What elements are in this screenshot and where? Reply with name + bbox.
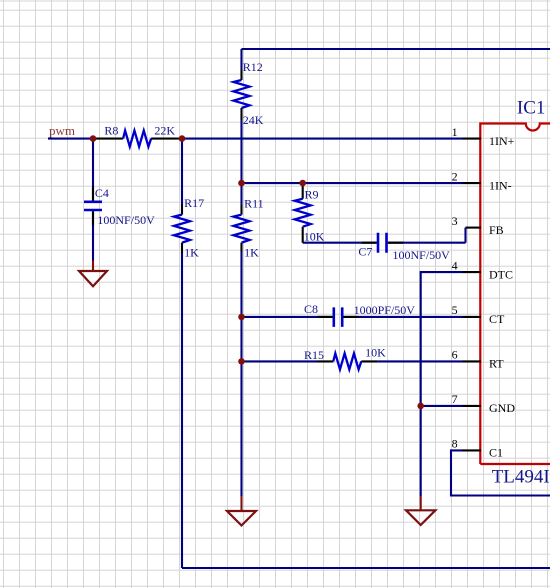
wire DTC net xyxy=(421,272,462,496)
wire pin2 net xyxy=(242,182,463,184)
svg-text:100NF/50V: 100NF/50V xyxy=(393,248,451,262)
pin 3 xyxy=(452,214,504,237)
ground under DTC branch xyxy=(406,496,435,525)
svg-text:7: 7 xyxy=(452,392,458,406)
svg-text:2: 2 xyxy=(452,169,458,183)
junction node R9 top xyxy=(299,180,306,187)
svg-text:C8: C8 xyxy=(304,302,318,316)
capacitor C4 xyxy=(84,186,155,227)
wire pwm lead xyxy=(48,138,92,140)
pin 6 xyxy=(452,348,505,371)
wire top net to right edge xyxy=(242,49,550,70)
wire C4 branch xyxy=(92,139,94,261)
resistor R15 xyxy=(304,345,386,369)
capacitor C7 xyxy=(358,233,450,262)
resistor R11 xyxy=(234,197,264,260)
pin 4 xyxy=(452,258,513,281)
wire R11 bottom to ground xyxy=(240,252,242,496)
ground under R11 branch xyxy=(227,496,256,526)
resistor R9 xyxy=(295,183,325,243)
junction node CT branch xyxy=(238,314,245,321)
svg-text:R15: R15 xyxy=(304,348,324,362)
junction node GND branch xyxy=(417,403,424,410)
svg-text:RT: RT xyxy=(489,357,504,371)
svg-text:10K: 10K xyxy=(365,345,386,359)
pin 7 xyxy=(452,392,516,415)
svg-text:C1: C1 xyxy=(489,446,503,460)
svg-text:C7: C7 xyxy=(358,245,372,259)
svg-text:24K: 24K xyxy=(243,113,264,127)
wire R17 bottom long xyxy=(181,253,183,568)
svg-text:6: 6 xyxy=(452,348,458,362)
svg-text:FB: FB xyxy=(489,223,504,237)
junction node pwm/C4 xyxy=(90,135,97,142)
wire CT net xyxy=(242,316,463,318)
wire GND net xyxy=(421,405,462,407)
svg-text:1K: 1K xyxy=(244,246,259,260)
svg-text:8: 8 xyxy=(452,437,458,451)
svg-text:R9: R9 xyxy=(305,188,319,202)
svg-text:100NF/50V: 100NF/50V xyxy=(97,213,155,227)
wire R12 bottom to junction xyxy=(240,120,242,183)
svg-text:5: 5 xyxy=(452,303,458,317)
svg-text:TL494ID: TL494ID xyxy=(492,467,550,488)
svg-text:pwm: pwm xyxy=(49,123,75,138)
svg-text:C4: C4 xyxy=(95,186,109,200)
svg-text:IC1: IC1 xyxy=(517,98,546,119)
svg-text:1IN-: 1IN- xyxy=(489,178,512,192)
svg-text:10K: 10K xyxy=(304,230,325,244)
resistor R8 xyxy=(93,123,182,146)
wire R11 top xyxy=(240,183,242,205)
svg-text:R11: R11 xyxy=(244,197,264,211)
svg-text:4: 4 xyxy=(452,258,458,272)
wire pin8 net xyxy=(451,450,550,495)
wire R17 branch top xyxy=(181,139,183,204)
junction node R8/R17 xyxy=(179,135,186,142)
svg-text:GND: GND xyxy=(489,401,515,415)
wire main net from R8 to pin1 xyxy=(182,138,462,140)
wire FB net xyxy=(303,228,466,243)
svg-text:22K: 22K xyxy=(154,123,175,137)
svg-text:1000PF/50V: 1000PF/50V xyxy=(354,303,416,317)
pin 8 xyxy=(452,437,503,460)
svg-text:R17: R17 xyxy=(184,196,204,210)
pin 2 xyxy=(452,169,512,192)
wire bottom rail xyxy=(182,567,550,569)
svg-text:1: 1 xyxy=(452,125,458,139)
wire RT net xyxy=(242,360,463,362)
junction node RT branch xyxy=(238,358,245,365)
svg-text:R12: R12 xyxy=(243,60,263,74)
svg-text:1IN+: 1IN+ xyxy=(489,134,515,148)
pin 1 xyxy=(452,125,515,148)
svg-text:3: 3 xyxy=(452,214,458,228)
op-amp U1 IC1 TL494ID box xyxy=(480,98,550,488)
resistor R12 xyxy=(234,60,264,127)
capacitor C8 xyxy=(304,302,415,327)
junction node R12/R11 pin2 xyxy=(238,180,245,187)
resistor R17 xyxy=(174,196,204,260)
svg-text:R8: R8 xyxy=(104,123,118,137)
svg-text:CT: CT xyxy=(489,312,505,326)
pin 5 xyxy=(452,303,505,326)
svg-text:DTC: DTC xyxy=(489,267,513,281)
svg-text:1K: 1K xyxy=(184,246,199,260)
ground under C4 xyxy=(79,261,107,287)
